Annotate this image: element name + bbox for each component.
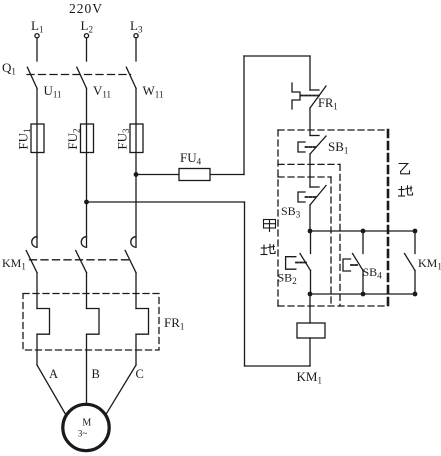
svg-text:M: M xyxy=(82,418,91,429)
svg-text:C: C xyxy=(136,367,144,381)
svg-text:B: B xyxy=(92,367,100,381)
svg-text:220V: 220V xyxy=(69,1,103,16)
svg-text:A: A xyxy=(49,367,58,381)
svg-text:3~: 3~ xyxy=(78,428,88,438)
